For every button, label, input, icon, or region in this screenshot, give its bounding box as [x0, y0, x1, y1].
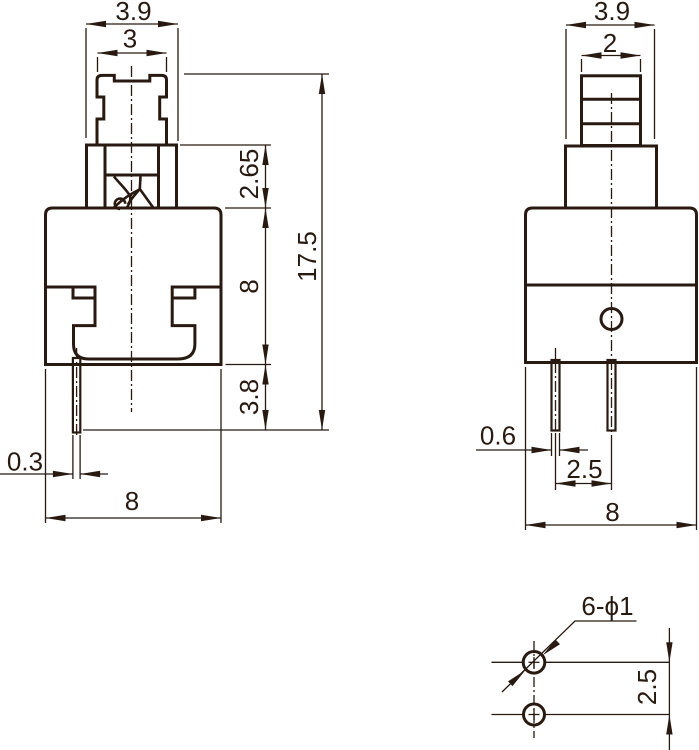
inner cup profile [46, 287, 222, 359]
svg-text:0.6: 0.6 [480, 421, 516, 451]
holes vertical centerline [533, 641, 535, 738]
dim 17.5 arrows [319, 74, 325, 430]
collar inner bore walls [105, 145, 159, 208]
right tab [172, 287, 195, 298]
svg-text:8: 8 [605, 497, 619, 527]
dim 0.3 extension lines [73, 435, 80, 479]
front pin [73, 358, 80, 433]
front view centerline [131, 66, 133, 412]
plunger cap outline [97, 75, 167, 145]
chained dim line 2.65/8/3.8 [265, 145, 267, 430]
detail dim line [668, 628, 670, 750]
dim 0.3 line left part [0, 473, 73, 475]
svg-text:2.5: 2.5 [632, 669, 662, 705]
svg-text:8: 8 [125, 486, 139, 516]
leader line 6-phi1 [502, 621, 637, 692]
spring squiggle stroke 4 [128, 189, 140, 205]
svg-text:8: 8 [234, 279, 264, 293]
centerline extension to 2.5 dim [611, 435, 613, 490]
dim 2.5 arrows [556, 480, 612, 486]
extension line body top [225, 207, 271, 209]
hole row 2 center mark [529, 714, 540, 716]
hole 1 center mark v [533, 657, 535, 720]
dim 8 (front bottom) line [46, 517, 222, 519]
front pin centerline [76, 348, 78, 438]
bottom extension line (pin tip datum) [83, 429, 329, 431]
chain arrows [262, 145, 268, 430]
leader arrows [508, 640, 560, 687]
dim 0.6 extension lines [552, 433, 560, 456]
dim 3 line [98, 52, 167, 54]
dim 0.3 line right part [80, 473, 108, 475]
hole row 2 line [492, 714, 670, 716]
dim 17.5 line [321, 74, 323, 430]
svg-text:17.5: 17.5 [292, 231, 322, 282]
dim 8 (side) arrows [526, 522, 697, 528]
dim 3.9 (front) extension lines [86, 28, 178, 141]
top extension line (17.5 datum) [184, 73, 329, 75]
svg-text:3.8: 3.8 [234, 379, 264, 415]
dim 0.6 line [476, 449, 588, 451]
svg-text:3.9: 3.9 [115, 0, 151, 26]
svg-text:0.3: 0.3 [7, 447, 43, 477]
svg-text:2: 2 [603, 28, 617, 58]
side body split line [526, 284, 697, 287]
dim 2 extension lines [582, 59, 641, 72]
svg-text:6-ϕ1: 6-ϕ1 [581, 591, 633, 621]
dim 3 extension lines [98, 57, 167, 72]
dim 2 arrows [582, 52, 641, 58]
hole row 1 line [492, 661, 670, 663]
inner mechanism box top [105, 174, 159, 177]
svg-text:2.65: 2.65 [234, 149, 264, 200]
dim 0.3 arrows [53, 471, 100, 477]
dim 3.9 (front) arrows [86, 21, 178, 27]
dim 3.9 (side) arrows [566, 22, 655, 28]
spring squiggle stroke 2 [114, 190, 140, 209]
svg-text:2.5: 2.5 [566, 454, 602, 484]
hole row 1 center mark [529, 661, 540, 663]
dim 8 (side) line [526, 524, 697, 526]
dim 8 (side) extension lines [526, 367, 697, 530]
side pin 1 [552, 360, 560, 431]
spring squiggle stroke 3 [140, 177, 154, 209]
detail dim arrows [666, 642, 672, 734]
side pin 2 [608, 360, 616, 431]
extension line collar top [180, 144, 271, 146]
side collar rectangle [566, 146, 657, 208]
side hole circle [601, 309, 622, 330]
dim 0.6 arrows [532, 447, 580, 453]
dim 3.9 (side) extension lines [566, 29, 655, 139]
extension line body bottom [226, 364, 272, 366]
dim 2 line [582, 55, 641, 57]
dim 8 (front bottom) arrows [46, 515, 222, 521]
dim 3.9 (side) line [566, 24, 655, 26]
spring squiggle loop [115, 199, 125, 209]
hole circle 1 [523, 652, 545, 674]
pin 1 hidden line inside body [555, 348, 557, 362]
hole circle 2 [524, 704, 545, 725]
svg-text:3.9: 3.9 [594, 0, 630, 26]
body outline [46, 208, 222, 365]
svg-text:3: 3 [123, 24, 137, 54]
dim 3.9 (front) line [86, 23, 178, 25]
side plunger rectangle [582, 76, 641, 146]
dim 8 (front bottom) extension lines [46, 369, 222, 523]
pin 1 extension to 2.5 dim [555, 433, 557, 490]
dim 2.5 line [556, 483, 612, 485]
collar (bushing) outer rectangle [87, 145, 177, 208]
left tab [73, 287, 95, 298]
dim 3 arrows [98, 50, 167, 56]
pin 1 centerline [555, 362, 557, 433]
side body outline [526, 208, 697, 363]
side plunger groove lines [582, 99, 641, 124]
spring squiggle stroke 1 [114, 177, 130, 208]
side view centerline [611, 93, 613, 435]
